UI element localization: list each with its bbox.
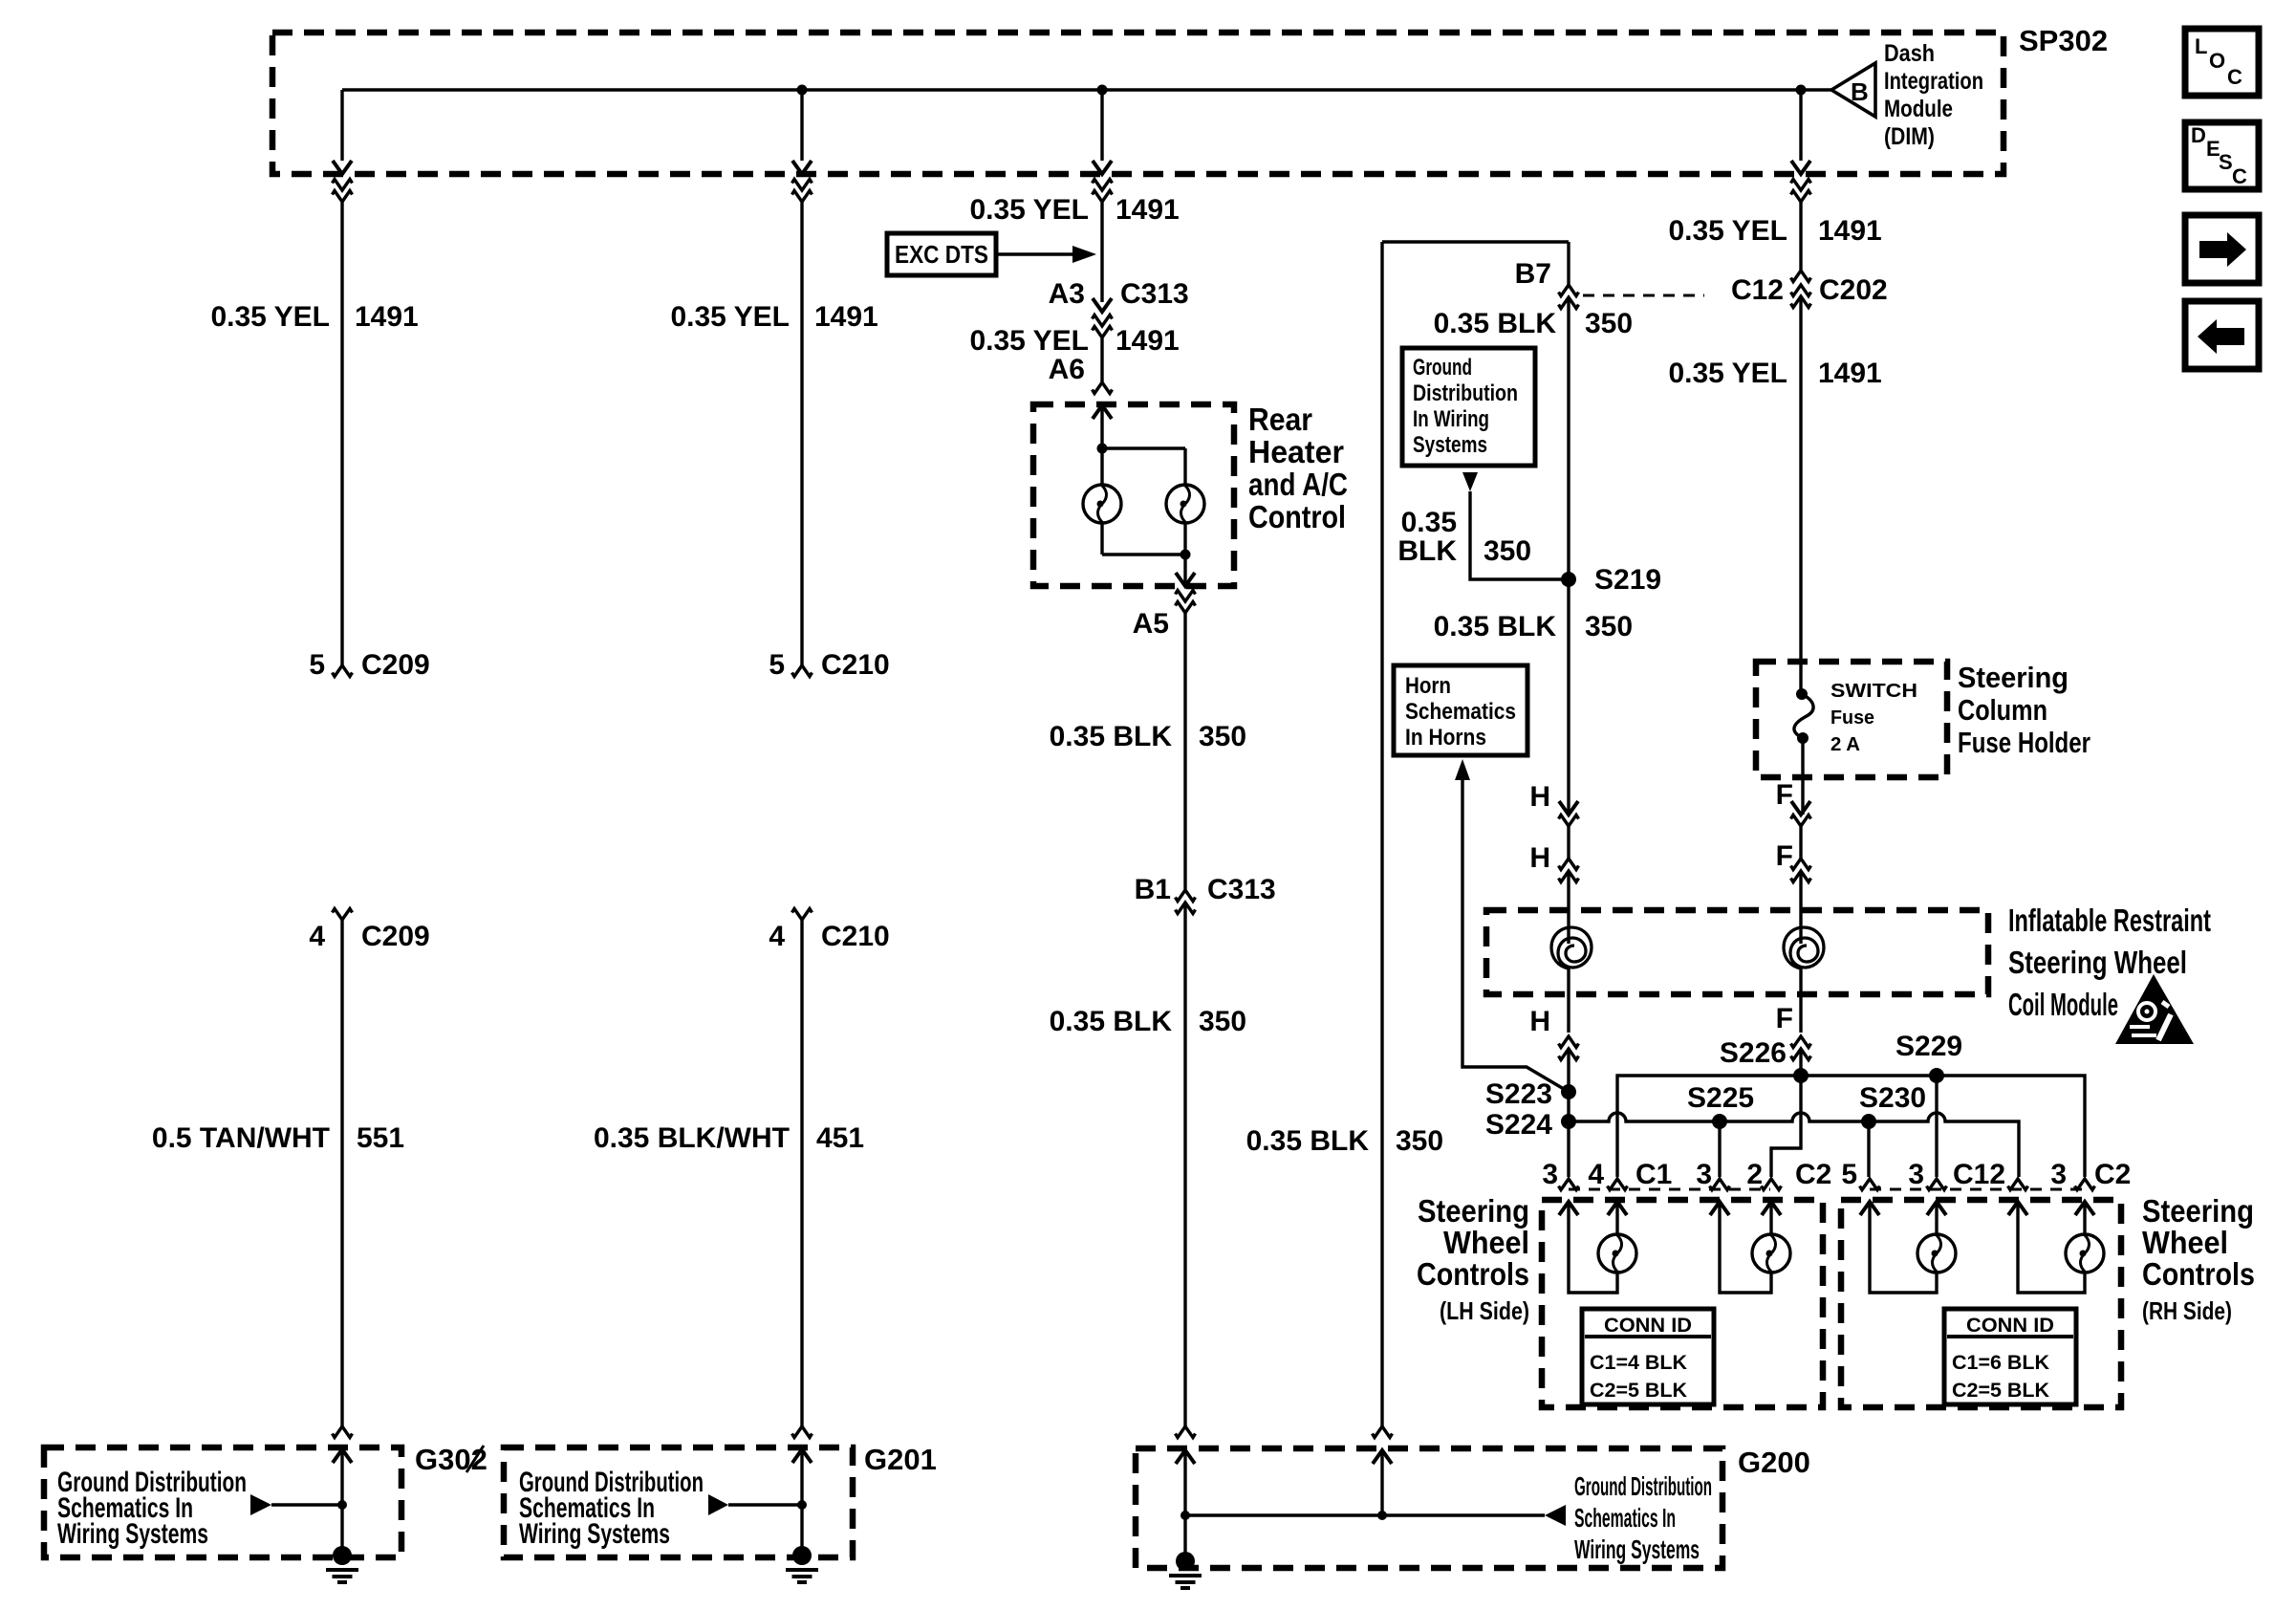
label Steering Wheel Controls (RH Side) [2142,1193,2255,1325]
LH U2 loop [1720,1202,1771,1293]
switch lamp U4 [2066,1234,2104,1273]
G302 text [57,1467,247,1550]
svg-text:Wiring Systems: Wiring Systems [519,1518,670,1550]
heater entry arrow [1093,405,1112,419]
wire v1 lower segment [340,920,343,1426]
svg-text:C1=6 BLK: C1=6 BLK [1952,1352,2049,1374]
wire v1 upper segment [340,202,343,665]
svg-text:C313: C313 [1120,278,1189,310]
svg-text:3: 3 [1696,1159,1712,1190]
wire below left lamp [1100,523,1103,555]
ground distribution box (wiring systems) [1402,348,1535,466]
wire v3b B1 to G200 [1183,903,1186,1426]
steering wheel controls LH dashed box [1542,1200,1823,1407]
coil spiral right [1784,927,1824,968]
connector 4 C210 start [792,909,812,921]
wire v5 through coil [1799,968,1802,1033]
svg-text:O: O [2209,49,2225,73]
inflatable restraint coil module dashed box [1486,910,1988,994]
svg-text:0.35 BLK: 0.35 BLK [1246,1125,1370,1157]
svg-text:SP302: SP302 [2019,24,2108,57]
svg-text:3: 3 [1908,1159,1924,1190]
node heater top junction [1097,444,1108,454]
svg-text:Horn: Horn [1405,673,1451,699]
switch lamp U1 [1598,1234,1636,1273]
svg-text:(LH Side): (LH Side) [1440,1296,1529,1325]
svg-text:C2=5 BLK: C2=5 BLK [1952,1380,2049,1402]
svg-text:G201: G201 [864,1443,937,1476]
svg-text:4: 4 [1588,1159,1604,1190]
horn schematics box [1394,665,1527,755]
svg-text:C12: C12 [1953,1159,2005,1190]
warning triangle airbag [2115,974,2194,1044]
legend box right-arrow [2185,215,2259,283]
svg-text:Coil Module: Coil Module [2008,987,2118,1022]
svg-text:0.35: 0.35 [1401,507,1457,538]
wire between H H [1567,826,1570,859]
G200 horizontal wire [1185,1513,1545,1516]
ground G302 [326,1546,358,1582]
ground box G200 [1136,1448,1722,1568]
svg-text:Steering Wheel: Steering Wheel [2008,945,2187,980]
wire heater right drop [1183,448,1186,485]
RH U3 loop [1870,1202,1937,1293]
svg-text:(DIM): (DIM) [1884,123,1935,150]
connector A5 start [1176,591,1196,602]
DIM triangle connector B [1831,63,1875,117]
node S224 [1561,1114,1576,1129]
wire between F F [1799,826,1802,859]
svg-text:Schematics In: Schematics In [1574,1503,1676,1533]
wire v2 drop inside SP302 [800,90,803,161]
wire GD box to S219 [1470,491,1569,579]
svg-text:Inflatable Restraint: Inflatable Restraint [2008,903,2211,938]
svg-text:Module: Module [1884,96,1953,122]
svg-text:CONN ID: CONN ID [1966,1315,2054,1337]
wire heater exit [1183,555,1186,586]
switch lamp U3 [1917,1234,1956,1273]
svg-text:Wheel: Wheel [2142,1225,2228,1260]
rear heater and A/C control dashed box [1033,404,1234,586]
svg-text:C1=4 BLK: C1=4 BLK [1590,1352,1687,1374]
wire v5 drop inside SP302 [1799,90,1802,161]
svg-text:D: D [2191,123,2206,147]
svg-text:G302: G302 [415,1443,487,1476]
svg-text:In Horns: In Horns [1405,725,1486,751]
wire v5 C202 to fuse [1799,296,1802,694]
svg-text:A5: A5 [1133,608,1169,640]
wire top rail v6-v4 [1382,240,1569,243]
svg-text:F: F [1776,1003,1793,1034]
wire v5 to S226 and jog [1771,1049,1801,1177]
G200 entry arrows [1176,1450,1195,1464]
ground G200 [1169,1552,1202,1588]
wire S229 drop [1935,1076,1938,1177]
wire v6 inside G200 [1380,1450,1383,1515]
svg-text:1491: 1491 [355,301,419,333]
wire v3b inside G200 [1183,1450,1186,1555]
wire v1 drop inside SP302 [340,90,343,161]
svg-text:In Wiring: In Wiring [1413,406,1489,432]
node S229 [1929,1068,1944,1083]
svg-text:B: B [1851,77,1869,106]
node S226 [1793,1068,1809,1083]
connector end into G201 [792,1426,812,1438]
svg-text:S225: S225 [1687,1082,1754,1114]
wire inside heater left [1100,405,1103,485]
GD box exit arrow [1462,472,1478,491]
svg-text:0.35 YEL: 0.35 YEL [969,194,1089,226]
svg-text:Controls: Controls [2142,1256,2255,1292]
RH U4 loop [2018,1202,2085,1293]
label Dash Integration Module (DIM) [1884,40,1983,150]
svg-text:C1: C1 [1635,1159,1672,1190]
svg-text:H: H [1529,781,1550,813]
svg-text:Distribution: Distribution [1413,381,1518,406]
ground G201 [786,1546,818,1582]
node S223 [1561,1084,1576,1099]
wire v4 into coil box [1567,871,1570,944]
svg-text:0.35 BLK/WHT: 0.35 BLK/WHT [594,1122,790,1154]
svg-text:350: 350 [1484,535,1531,567]
svg-text:C: C [2232,164,2247,188]
wire horn line [1462,780,1569,1092]
wire v5 from SP302 [1799,202,1802,271]
svg-text:C202: C202 [1819,274,1888,306]
svg-text:Steering: Steering [1958,661,2069,694]
svg-text:0.35 YEL: 0.35 YEL [210,301,330,333]
svg-text:S224: S224 [1485,1109,1552,1141]
SP302 exit arrows and connector starts [333,161,1811,202]
svg-text:F: F [1776,779,1793,811]
wire S230 drop [1867,1121,1870,1177]
LH U1 entry arrows [1559,1202,1578,1215]
dashed link B7 to C12 [1583,294,1704,297]
node heater bottom junction [1180,550,1191,560]
ground box G302 [44,1447,401,1557]
svg-text:350: 350 [1585,611,1633,642]
svg-text:S223: S223 [1485,1078,1552,1110]
svg-text:350: 350 [1199,1006,1246,1037]
svg-text:L: L [2195,34,2207,58]
wire v4 to S223 S224 and LH connector [1567,1049,1570,1177]
svg-text:Heater: Heater [1248,434,1344,469]
svg-text:Rear: Rear [1248,402,1312,437]
svg-text:Fuse: Fuse [1830,707,1874,729]
steering wheel controls RH dashed box [1841,1200,2121,1407]
svg-text:2: 2 [1746,1159,1763,1190]
legend box left-arrow [2185,301,2259,369]
label Rear Heater and A/C Control [1248,402,1348,534]
connector A6 end [1093,382,1113,394]
svg-text:A3: A3 [1049,278,1085,310]
label Inflatable Restraint Steering Wheel Coil Module [2008,903,2211,1022]
node bus-v2 [797,85,808,96]
wire v4 through coil [1567,968,1570,1033]
svg-text:S230: S230 [1859,1082,1926,1114]
svg-text:C210: C210 [821,921,890,952]
svg-text:0.35 BLK: 0.35 BLK [1050,1006,1173,1037]
svg-text:1491: 1491 [1116,325,1180,357]
wire v3a A3 to A6 [1100,337,1103,382]
svg-text:2 A: 2 A [1830,734,1860,755]
svg-text:0.5 TAN/WHT: 0.5 TAN/WHT [152,1122,330,1154]
svg-text:H: H [1529,842,1550,874]
wire v1 inside G302 [340,1449,343,1549]
G200 reference arrow [1545,1505,1566,1526]
G201 entry arrow [792,1449,812,1463]
wire v5 into coil box [1799,871,1802,944]
svg-text:Dash: Dash [1884,40,1935,67]
svg-text:C209: C209 [361,921,430,952]
svg-text:B7: B7 [1515,258,1551,290]
svg-text:SWITCH: SWITCH [1830,681,1917,702]
svg-text:C2=5 BLK: C2=5 BLK [1590,1380,1687,1402]
upper bus rail S226/S229 [1617,1076,2085,1177]
connector v6 end into G200 [1373,1426,1393,1438]
wire heater top rail [1102,446,1185,449]
svg-text:1491: 1491 [1116,194,1180,226]
svg-text:C210: C210 [821,649,890,681]
wire S225 drop [1718,1121,1721,1177]
splice pack SP302 dashed box [272,33,2004,174]
svg-text:350: 350 [1396,1125,1443,1157]
svg-text:Control: Control [1248,499,1346,534]
svg-text:H: H [1529,1006,1550,1037]
svg-text:551: 551 [357,1122,404,1154]
svg-text:Systems: Systems [1413,432,1487,458]
svg-text:C2: C2 [2094,1159,2131,1190]
connector B1 C313 [1176,890,1196,902]
connector C12 C202 [1791,271,1811,282]
svg-text:and A/C: and A/C [1248,467,1348,502]
svg-text:5: 5 [1841,1159,1857,1190]
lamp right [1166,485,1204,523]
wire v3b A5 to B1 [1183,613,1186,890]
node bus-v5 [1796,85,1807,96]
G200 text [1574,1471,1712,1564]
wire v2 inside G201 [800,1449,803,1549]
svg-text:0.35 YEL: 0.35 YEL [670,301,790,333]
svg-text:0.35 YEL: 0.35 YEL [1668,215,1787,247]
node bus-v3 [1097,85,1108,96]
connector end into G302 [333,1426,353,1438]
svg-text:1491: 1491 [814,301,878,333]
LH U2 entry arrows [1710,1202,1729,1215]
svg-text:CONN ID: CONN ID [1604,1315,1692,1337]
svg-text:EXC DTS: EXC DTS [895,240,988,269]
label Steering Wheel Controls (LH Side) [1417,1193,1529,1325]
svg-text:Steering: Steering [1418,1193,1529,1229]
G201 text [519,1467,704,1550]
connector 5 C210 end [792,665,812,677]
lower bus rail S224/S225/S230 with hops [1569,1113,2019,1177]
connector B7 [1559,285,1579,296]
node S219 [1561,572,1576,587]
EXC DTS flag box [887,233,1096,275]
svg-text:S219: S219 [1594,564,1661,596]
wire v5 fuse to F [1801,738,1804,815]
wire v3a from SP302 [1100,202,1103,302]
connector 4 C209 start [333,909,353,921]
wire v3 drop inside SP302 [1100,90,1103,161]
svg-text:1491: 1491 [1818,358,1882,389]
svg-text:C209: C209 [361,649,430,681]
svg-text:Integration: Integration [1884,68,1983,95]
svg-text:350: 350 [1199,721,1246,752]
svg-text:Wheel: Wheel [1443,1225,1529,1260]
legend box LOC [2185,29,2259,96]
connector A3 C313 [1093,298,1112,312]
ground box G201 [504,1447,853,1557]
G302 entry arrow [333,1449,352,1463]
svg-text:BLK: BLK [1397,535,1457,567]
svg-text:C12: C12 [1731,274,1784,306]
svg-text:350: 350 [1585,308,1633,339]
svg-text:C313: C313 [1207,874,1276,905]
svg-text:4: 4 [309,921,325,952]
connector 5 C209 end [333,665,353,677]
bus wire inside SP302 [342,88,1831,91]
svg-text:S: S [2219,150,2233,174]
svg-text:3: 3 [1542,1159,1558,1190]
svg-text:Fuse Holder: Fuse Holder [1958,726,2090,759]
svg-text:G200: G200 [1738,1446,1810,1479]
RH U4 entry arrows [2008,1202,2027,1215]
CONN ID table LH [1582,1309,1714,1404]
svg-text:3: 3 [2050,1159,2067,1190]
svg-text:0.35 BLK: 0.35 BLK [1434,308,1557,339]
fuse SWITCH 2A [1794,681,1917,755]
wire v4 S219 to H [1567,579,1570,815]
wire v4 B7 to S219 [1567,297,1570,579]
wire v2 upper segment [800,202,803,665]
svg-text:0.35 YEL: 0.35 YEL [969,325,1089,357]
svg-text:Ground Distribution: Ground Distribution [1574,1471,1712,1501]
coil spiral left [1551,927,1592,968]
wire v6 long drop [1380,242,1383,1426]
svg-text:4: 4 [769,921,785,952]
label Steering Column Fuse Holder [1958,661,2090,759]
node S225 [1712,1114,1727,1129]
svg-text:A6: A6 [1049,354,1085,385]
svg-text:C: C [2227,65,2242,89]
svg-text:C2: C2 [1795,1159,1831,1190]
svg-text:5: 5 [309,649,325,681]
svg-text:Wiring Systems: Wiring Systems [57,1518,208,1550]
horn reference arrow [1455,759,1470,780]
G302 reference arrow [250,1494,271,1515]
steering column fuse holder dashed box [1756,662,1947,777]
LH U1 loop [1569,1202,1617,1293]
connector end into G200 [1176,1426,1196,1438]
G201 reference arrow [708,1494,728,1515]
switch lamp U2 [1752,1234,1790,1273]
CONN ID table RH [1944,1309,2076,1404]
svg-text:0.35 YEL: 0.35 YEL [1668,358,1787,389]
wire v4 top stub [1567,242,1570,285]
svg-text:Wiring Systems: Wiring Systems [1574,1534,1700,1564]
svg-text:0.35 BLK: 0.35 BLK [1050,721,1173,752]
svg-text:451: 451 [816,1122,864,1154]
wire below right lamp [1183,523,1186,555]
svg-text:Controls: Controls [1417,1256,1529,1292]
svg-text:Steering: Steering [2142,1193,2254,1229]
wire heater bottom rail [1102,553,1185,555]
svg-text:S226: S226 [1720,1037,1787,1069]
wire v2 lower segment [800,920,803,1426]
legend box DESC [2185,122,2259,189]
svg-text:0.35 BLK: 0.35 BLK [1434,611,1557,642]
svg-text:1491: 1491 [1818,215,1882,247]
svg-text:(RH Side): (RH Side) [2142,1296,2232,1325]
RH U3 entry arrows [1860,1202,1879,1215]
node S230 [1861,1114,1876,1129]
connector chevrons at controls boxes [1569,1188,1770,1191]
svg-text:B1: B1 [1135,874,1171,905]
svg-text:S229: S229 [1895,1031,1962,1062]
svg-text:Ground: Ground [1413,355,1472,381]
svg-text:Column: Column [1958,693,2047,727]
svg-text:Schematics: Schematics [1405,699,1516,725]
svg-text:5: 5 [769,649,785,681]
lamp left [1083,485,1121,523]
